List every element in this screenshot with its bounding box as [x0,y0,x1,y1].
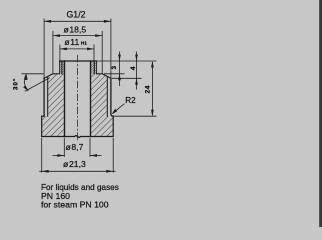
arrow dim4 bottom [135,78,138,85]
dim line d8.7 right tail [90,155,102,157]
ext line d18.5 right [101,31,103,73]
thread minor line left [61,61,63,73]
30deg horizontal reference line [22,73,44,75]
hatched right wall of section [91,61,114,137]
ext line G1/2 left [43,19,45,79]
ext line d11 right [93,45,95,61]
R2 leader line [113,104,125,114]
svg-text:4: 4 [130,66,137,70]
centerline [77,55,79,142]
30deg chamfer extension line [25,78,50,92]
svg-text:G1/2: G1/2 [66,9,85,19]
ext line neck top right [97,60,156,62]
dim 4 line [136,52,138,90]
svg-text:for steam PN 100: for steam PN 100 [41,199,109,209]
arrow dim3 top [118,55,121,62]
arrow d18.5 left [53,34,60,37]
ledge right [97,73,103,75]
dim 3 line [119,52,121,87]
bore wall left [64,61,66,137]
hatched left wall of section [42,61,65,137]
right page border [319,0,322,227]
neck top face [60,60,97,62]
svg-text:ø 11: ø 11 [64,37,79,47]
ledge left [53,73,60,75]
arrow dim24 bottom [151,110,154,117]
svg-text:24: 24 [145,85,152,93]
arrow dim24 top [151,61,154,68]
dim line d21.3 [39,170,115,172]
arrow R2 [112,109,118,115]
svg-text:H1: H1 [81,41,87,47]
chamfer left [44,74,53,79]
arrow 30deg top [25,74,28,80]
ext line d11 left [59,45,61,61]
arrow d11 right [87,48,94,51]
flange wall left [41,116,43,136]
neck wall fine hatch right [91,61,97,74]
thread minor line right [93,61,95,73]
arrow d18.5 right [95,34,102,37]
ext line G1/2 right [110,19,112,79]
arrow d8.7 right [90,154,97,157]
neck wall fine hatch left [60,61,65,74]
svg-text:ø 21,3: ø 21,3 [63,159,86,169]
bottom face [42,136,114,138]
arrow 30deg bottom [23,85,28,91]
dim line G1/2 [44,20,111,22]
svg-text:ø 8,7: ø 8,7 [65,142,83,152]
flange step left [42,115,44,117]
ext line d18.5 left [52,31,54,73]
arrow dim3 bottom [118,74,121,81]
neck outer thread line left [59,61,61,74]
thread minor body line right [106,77,108,117]
dim line d18.5 [53,35,102,37]
neck outer thread line right [96,61,98,74]
arrow d21.3 right [106,170,113,173]
arrow dim4 top [135,55,138,62]
dim line 24 [151,62,153,116]
arrow d11 left [60,48,67,51]
svg-text:30°: 30° [13,78,20,90]
dim line d8.7 left tail [53,155,65,157]
ext line d8.7 right [89,138,91,157]
dim line d11 [60,48,94,50]
thread major line right with R2 fillet [111,78,113,116]
ext line ledge right (dim 3) [104,73,125,75]
ext line d21.3 left [41,138,43,173]
arrow G1/2 right [104,20,111,23]
arrow d8.7 left [57,154,64,157]
ext line d8.7 left [63,138,65,157]
bore wall right [90,61,92,137]
thread major line left [43,78,45,116]
ext line flange top right [114,115,157,117]
chamfer right [102,74,111,79]
ext line chamfer bottom right (dim 4) [112,77,142,79]
ext line d21.3 right [112,138,114,173]
svg-text:R2: R2 [125,96,136,105]
arrow d21.3 left [42,170,49,173]
flange wall right [112,116,114,136]
svg-text:ø 18,5: ø 18,5 [63,24,86,34]
thread minor body line left [47,77,49,117]
arrow G1/2 left [44,20,51,23]
30deg arc [24,74,28,90]
